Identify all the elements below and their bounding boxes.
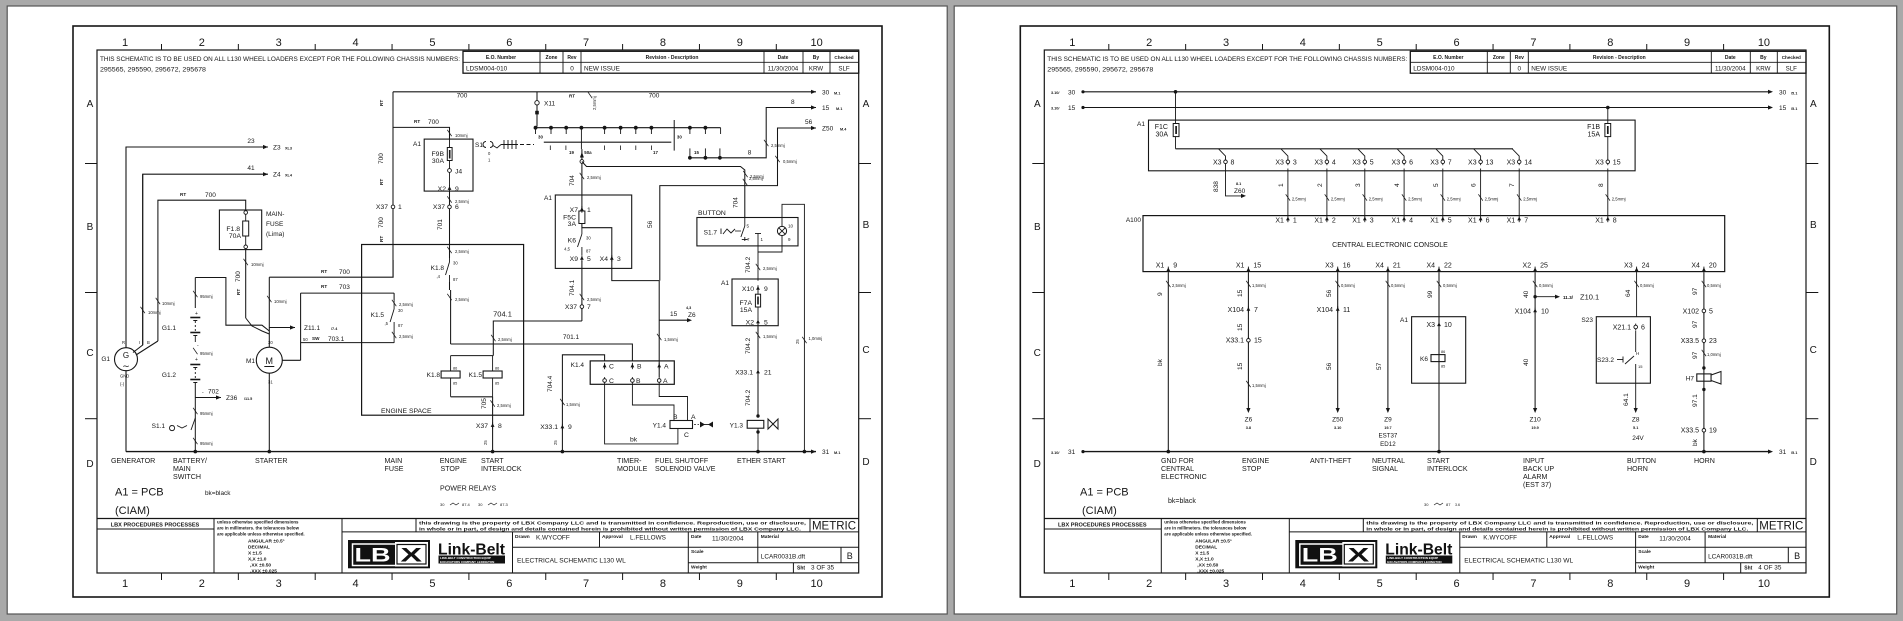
svg-text:C: C bbox=[862, 345, 869, 356]
svg-text:/5.1: /5.1 bbox=[1791, 107, 1797, 111]
svg-text:4: 4 bbox=[1332, 159, 1336, 166]
svg-text:30: 30 bbox=[1779, 89, 1787, 96]
svg-text:6: 6 bbox=[506, 578, 512, 590]
svg-text:B: B bbox=[863, 220, 870, 231]
svg-text:8.1: 8.1 bbox=[1236, 182, 1241, 186]
wire 56 to Z50 bbox=[660, 128, 816, 281]
fuse F9B 30A bbox=[449, 139, 451, 147]
svg-text:6: 6 bbox=[1409, 159, 1413, 166]
svg-text:BUTTON: BUTTON bbox=[698, 210, 726, 217]
wire to button 704 bbox=[582, 162, 745, 218]
svg-text:87.4: 87.4 bbox=[462, 502, 471, 507]
svg-text:J4: J4 bbox=[455, 169, 462, 176]
svg-text:G1: G1 bbox=[101, 356, 110, 363]
wire Z4 tap bbox=[143, 174, 268, 345]
svg-text:11/30/2004: 11/30/2004 bbox=[712, 536, 744, 543]
wire start interlock column bbox=[1438, 273, 1440, 452]
svg-text:70A: 70A bbox=[229, 233, 242, 240]
svg-text:X37: X37 bbox=[565, 304, 577, 311]
svg-text:97: 97 bbox=[1692, 351, 1699, 359]
svg-text:9: 9 bbox=[764, 286, 768, 293]
svg-text:700: 700 bbox=[457, 93, 468, 100]
svg-text:64.1: 64.1 bbox=[1623, 393, 1630, 406]
svg-text:5.1: 5.1 bbox=[1633, 426, 1638, 430]
svg-text:in whole or in part, of design: in whole or in part, of design and detai… bbox=[1366, 526, 1748, 531]
svg-text:15: 15 bbox=[1237, 362, 1244, 370]
svg-text:SWITCH: SWITCH bbox=[173, 473, 201, 481]
svg-text:NEW ISSUE: NEW ISSUE bbox=[1531, 66, 1567, 73]
svg-text:ENGINE SPACE: ENGINE SPACE bbox=[381, 408, 432, 415]
svg-text:16: 16 bbox=[1343, 263, 1351, 270]
svg-text:X33.5: X33.5 bbox=[1681, 338, 1699, 345]
svg-text:/5.1: /5.1 bbox=[1791, 451, 1797, 455]
svg-text:ANGULAR ±0.5°: ANGULAR ±0.5° bbox=[248, 538, 285, 544]
svg-text:5: 5 bbox=[1433, 183, 1440, 187]
connector X104 pin 10 bbox=[1533, 309, 1537, 313]
fuel shutoff valve Y1.4 bbox=[670, 421, 693, 429]
svg-text:,XXX ±0.025: ,XXX ±0.025 bbox=[1197, 568, 1224, 574]
svg-text:30: 30 bbox=[822, 89, 830, 96]
svg-text:704: 704 bbox=[569, 175, 576, 186]
svg-text:2,5mmj: 2,5mmj bbox=[498, 337, 512, 342]
svg-text:F7A: F7A bbox=[740, 300, 753, 307]
svg-text:LBX PROCEDURES PROCESSES: LBX PROCEDURES PROCESSES bbox=[1058, 523, 1147, 529]
svg-text:A: A bbox=[663, 378, 668, 385]
svg-text:Z50: Z50 bbox=[1332, 417, 1344, 424]
svg-text:F1C: F1C bbox=[1155, 124, 1168, 131]
svg-text:A: A bbox=[691, 414, 696, 421]
svg-text:Approval: Approval bbox=[1549, 534, 1570, 540]
svg-text:F1.8: F1.8 bbox=[226, 226, 240, 233]
svg-text:(-): (-) bbox=[120, 382, 125, 387]
relay coil K1.8 bbox=[451, 355, 494, 357]
svg-text:704.1: 704.1 bbox=[493, 310, 512, 319]
svg-text:2,5mmj: 2,5mmj bbox=[1331, 197, 1345, 202]
svg-text:1: 1 bbox=[1069, 37, 1075, 49]
central electronic console box A100 bbox=[1143, 216, 1725, 272]
svg-text:25: 25 bbox=[553, 440, 558, 445]
connector X104 pin 11 bbox=[1336, 307, 1340, 311]
net arrow Z8 24V bbox=[1634, 408, 1638, 413]
svg-text:15: 15 bbox=[1638, 364, 1643, 369]
connector X33.1 pin 9 bbox=[561, 425, 565, 429]
svg-text:S1.7: S1.7 bbox=[704, 230, 718, 237]
svg-text:INTERLOCK: INTERLOCK bbox=[481, 465, 522, 473]
svg-text:X4: X4 bbox=[600, 256, 609, 263]
horn H7 bbox=[1702, 366, 1705, 369]
svg-text:6: 6 bbox=[1486, 217, 1490, 224]
svg-text:ED12: ED12 bbox=[1380, 441, 1396, 448]
svg-text:10mmj: 10mmj bbox=[455, 133, 468, 138]
svg-text:50: 50 bbox=[303, 337, 308, 342]
svg-text:MAIN: MAIN bbox=[385, 457, 403, 465]
grid row ticks left bbox=[85, 163, 97, 165]
ignition switch terminal rail top bbox=[534, 127, 720, 129]
svg-text:30: 30 bbox=[268, 340, 273, 345]
svg-text:(EST 37): (EST 37) bbox=[1523, 481, 1551, 489]
svg-text:7: 7 bbox=[1530, 578, 1536, 590]
svg-text:704.1: 704.1 bbox=[569, 279, 576, 296]
svg-text:13: 13 bbox=[1486, 159, 1494, 166]
connector X37 pin 6 bbox=[448, 205, 452, 209]
net arrow Z11.1 bbox=[269, 327, 295, 329]
svg-text:3.10/: 3.10/ bbox=[1051, 451, 1060, 455]
svg-text:4 OF 35: 4 OF 35 bbox=[1758, 565, 1782, 572]
wire main fuse to starter junction bbox=[245, 249, 247, 318]
svg-text:X3: X3 bbox=[1352, 159, 1361, 166]
svg-text:19.9: 19.9 bbox=[1531, 426, 1538, 430]
svg-text:A1: A1 bbox=[1400, 317, 1408, 324]
svg-text:15: 15 bbox=[1254, 338, 1262, 345]
svg-text:3: 3 bbox=[1370, 217, 1374, 224]
svg-text:25: 25 bbox=[483, 440, 488, 445]
svg-text:87.3: 87.3 bbox=[500, 502, 509, 507]
svg-text:0,5mmj: 0,5mmj bbox=[1391, 283, 1405, 288]
wire 704.2 to X33.1 bbox=[757, 324, 759, 415]
svg-text:XL4: XL4 bbox=[285, 174, 293, 178]
svg-text:+: + bbox=[195, 311, 198, 317]
svg-text:X3: X3 bbox=[1392, 159, 1401, 166]
wire left vertical RT 700 bbox=[392, 127, 394, 277]
wire 8 to net 15 bbox=[690, 108, 816, 158]
svg-text:8: 8 bbox=[660, 37, 666, 49]
svg-text:C: C bbox=[609, 364, 614, 371]
svg-text:700: 700 bbox=[235, 271, 242, 282]
svg-text:56: 56 bbox=[1326, 362, 1333, 370]
svg-text:15: 15 bbox=[670, 311, 678, 318]
svg-text:2,5mmj: 2,5mmj bbox=[1523, 197, 1537, 202]
svg-text:STARTER: STARTER bbox=[255, 457, 287, 465]
svg-text:0: 0 bbox=[570, 66, 574, 73]
svg-text:1,5mmj: 1,5mmj bbox=[763, 334, 777, 339]
wire horn column bbox=[1703, 273, 1705, 452]
wire Z3 tap bbox=[126, 147, 268, 452]
grid row ticks right bbox=[1806, 163, 1818, 165]
svg-text:3.10: 3.10 bbox=[1334, 426, 1341, 430]
wire 704.4 timer feed bbox=[562, 355, 604, 452]
svg-text:6: 6 bbox=[1453, 37, 1459, 49]
svg-text:1,5mmj: 1,5mmj bbox=[664, 337, 678, 342]
engine space box bbox=[362, 245, 524, 416]
net arrow Z9 EST37 bbox=[1386, 408, 1390, 413]
svg-text:10: 10 bbox=[811, 578, 823, 590]
svg-text:M: M bbox=[266, 356, 274, 366]
svg-text:22: 22 bbox=[1444, 263, 1452, 270]
svg-text:METRIC: METRIC bbox=[1759, 521, 1803, 533]
svg-text:are in millimeters. the tolera: are in millimeters. the tolerances below bbox=[217, 525, 300, 530]
svg-text:Z50: Z50 bbox=[822, 126, 834, 133]
svg-text:ENGINE: ENGINE bbox=[1242, 457, 1269, 465]
svg-text:4: 4 bbox=[1394, 183, 1401, 187]
svg-text:Revision - Description: Revision - Description bbox=[646, 55, 699, 61]
svg-text:1: 1 bbox=[1278, 183, 1285, 187]
svg-text:X104: X104 bbox=[1228, 307, 1244, 314]
svg-text:9: 9 bbox=[1157, 292, 1164, 296]
svg-text:ANGULAR ±0.5°: ANGULAR ±0.5° bbox=[1195, 538, 1232, 544]
svg-text:5: 5 bbox=[429, 37, 435, 49]
connector X2 pin 5 bbox=[756, 320, 760, 324]
svg-text:RT: RT bbox=[321, 269, 327, 274]
svg-text:30: 30 bbox=[453, 261, 458, 266]
svg-text:X1: X1 bbox=[1314, 217, 1323, 224]
svg-text:23: 23 bbox=[247, 138, 255, 145]
revision table bbox=[463, 51, 859, 73]
svg-text:X3: X3 bbox=[1595, 159, 1604, 166]
svg-text:BACK UP: BACK UP bbox=[1523, 465, 1554, 473]
svg-text:THIS SCHEMATIC IS TO BE USED O: THIS SCHEMATIC IS TO BE USED ON ALL L130… bbox=[100, 56, 460, 63]
svg-text:A: A bbox=[1034, 99, 1041, 110]
svg-text:Date: Date bbox=[691, 534, 702, 540]
connector X3 pins row bbox=[1224, 160, 1228, 164]
generator G1 bbox=[115, 348, 138, 371]
connector X4 pin 3 bbox=[610, 256, 614, 260]
svg-text:M.1: M.1 bbox=[834, 451, 840, 455]
svg-text:X10: X10 bbox=[742, 286, 754, 293]
svg-text:7: 7 bbox=[583, 578, 589, 590]
svg-text:40: 40 bbox=[1523, 358, 1530, 366]
svg-text:1,5mmj: 1,5mmj bbox=[1252, 383, 1266, 388]
svg-text:KRW: KRW bbox=[809, 66, 823, 73]
svg-text:Drawn: Drawn bbox=[515, 534, 530, 540]
svg-text:31: 31 bbox=[1779, 449, 1787, 456]
svg-text:15: 15 bbox=[694, 150, 699, 155]
svg-text:X37: X37 bbox=[376, 204, 388, 211]
svg-text:704.2: 704.2 bbox=[745, 256, 752, 273]
svg-text:B: B bbox=[1794, 551, 1800, 561]
svg-text:21: 21 bbox=[764, 370, 772, 377]
wire 56 feed into F5C bbox=[582, 224, 659, 281]
svg-text:1: 1 bbox=[1069, 578, 1075, 590]
svg-text:Date: Date bbox=[778, 55, 789, 61]
starter ground wire bbox=[268, 373, 270, 451]
svg-text:30A: 30A bbox=[1156, 132, 1169, 139]
svg-text:5: 5 bbox=[1709, 309, 1713, 316]
svg-text:X3: X3 bbox=[1507, 159, 1516, 166]
svg-text:K6: K6 bbox=[568, 238, 577, 245]
wire input backup alarm column bbox=[1534, 273, 1536, 408]
svg-text:7: 7 bbox=[1448, 159, 1452, 166]
svg-text:G1.1: G1.1 bbox=[162, 325, 176, 332]
svg-text:GND: GND bbox=[120, 374, 129, 379]
svg-text:30: 30 bbox=[677, 135, 682, 140]
svg-text:bk: bk bbox=[630, 437, 638, 444]
wire 64.1 to Z8 bbox=[1635, 383, 1637, 408]
svg-text:Z6: Z6 bbox=[1245, 417, 1253, 424]
svg-text:10mmj: 10mmj bbox=[251, 262, 264, 267]
svg-text:X1: X1 bbox=[1392, 217, 1401, 224]
svg-text:3.10/: 3.10/ bbox=[1051, 107, 1060, 111]
svg-text:95mmj: 95mmj bbox=[200, 351, 213, 356]
svg-text:Y1.3: Y1.3 bbox=[730, 423, 744, 430]
button lamp bbox=[777, 226, 786, 235]
svg-text:X9: X9 bbox=[570, 256, 579, 263]
svg-text:86: 86 bbox=[453, 367, 457, 371]
svg-text:RT: RT bbox=[379, 236, 384, 242]
fuse F7A 15A bbox=[757, 291, 759, 294]
svg-text:SIGNAL: SIGNAL bbox=[1372, 465, 1398, 473]
svg-text:A: A bbox=[863, 99, 870, 110]
svg-text:X,X ±1.0: X,X ±1.0 bbox=[248, 556, 267, 562]
fuse F5C 3A bbox=[579, 211, 585, 224]
wire 704.1 to X37 pin 7 bbox=[581, 261, 583, 321]
svg-text:G1.2: G1.2 bbox=[162, 372, 176, 379]
svg-text:64: 64 bbox=[1625, 289, 1632, 297]
drawing outer border frame bbox=[1020, 26, 1829, 597]
svg-text:Revision - Description: Revision - Description bbox=[1593, 55, 1646, 61]
svg-text:(Lima): (Lima) bbox=[266, 231, 284, 238]
svg-text:D: D bbox=[1810, 457, 1817, 468]
svg-text:19: 19 bbox=[1709, 428, 1717, 435]
svg-text:X: X bbox=[401, 546, 423, 567]
svg-text:3: 3 bbox=[617, 256, 621, 263]
svg-text:S1: S1 bbox=[475, 142, 483, 149]
svg-text:∼: ∼ bbox=[122, 361, 130, 371]
connector X37 pin 7 bbox=[580, 305, 584, 309]
svg-text:X3: X3 bbox=[1275, 159, 1284, 166]
svg-text:57: 57 bbox=[1376, 362, 1383, 370]
terminal tick 30 bbox=[673, 120, 675, 151]
svg-text:B: B bbox=[1034, 222, 1041, 233]
svg-text:85: 85 bbox=[453, 382, 457, 386]
svg-text:19: 19 bbox=[569, 150, 574, 155]
svg-text:LDSM004-010: LDSM004-010 bbox=[466, 66, 508, 73]
svg-text:this drawing is the property o: this drawing is the property of LBX Comp… bbox=[419, 521, 806, 526]
svg-text:6: 6 bbox=[455, 204, 459, 211]
svg-text:K1.8: K1.8 bbox=[431, 265, 445, 272]
svg-text:ELECTRICAL SCHEMATIC L130 WL: ELECTRICAL SCHEMATIC L130 WL bbox=[517, 558, 626, 565]
svg-text:A: A bbox=[1810, 99, 1817, 110]
drawing inner border frame bbox=[1044, 50, 1806, 573]
svg-text:2,5mmj: 2,5mmj bbox=[1485, 197, 1499, 202]
svg-text:A: A bbox=[87, 99, 94, 110]
svg-text:Date: Date bbox=[1725, 55, 1736, 61]
svg-text:56: 56 bbox=[1326, 289, 1333, 297]
svg-text:X2: X2 bbox=[438, 186, 447, 193]
svg-text:2,5mmj: 2,5mmj bbox=[399, 302, 413, 307]
svg-text:2: 2 bbox=[1317, 183, 1324, 187]
svg-text:K1.8: K1.8 bbox=[427, 372, 441, 379]
svg-text:9: 9 bbox=[455, 186, 459, 193]
svg-text:X1: X1 bbox=[1275, 217, 1284, 224]
svg-text:4: 4 bbox=[1300, 578, 1306, 590]
svg-text:B: B bbox=[147, 340, 150, 345]
svg-text:X2: X2 bbox=[746, 320, 755, 327]
svg-text:START: START bbox=[481, 457, 504, 465]
svg-text:31: 31 bbox=[822, 449, 830, 456]
svg-text:MAIN-: MAIN- bbox=[266, 211, 284, 218]
connector X3 pin 10 bbox=[1437, 322, 1441, 326]
svg-text:ETHER START: ETHER START bbox=[737, 457, 786, 465]
page 2 sheet background bbox=[954, 6, 1896, 614]
svg-text:R: R bbox=[122, 340, 125, 345]
svg-text:15: 15 bbox=[1068, 105, 1076, 112]
ground bus 31 bbox=[126, 451, 816, 453]
svg-text:10mmj: 10mmj bbox=[274, 299, 287, 304]
svg-text:X: X bbox=[1348, 546, 1370, 567]
svg-text:5: 5 bbox=[1377, 37, 1383, 49]
connector X33.5 pin 23 bbox=[1702, 339, 1706, 343]
svg-text:,XXX ±0.025: ,XXX ±0.025 bbox=[250, 568, 277, 574]
svg-text:(CIAM): (CIAM) bbox=[1082, 505, 1117, 517]
wires X3 row to X1 row bbox=[1287, 169, 1289, 216]
svg-text:(CIAM): (CIAM) bbox=[115, 505, 150, 517]
grid row ticks left bbox=[1032, 163, 1044, 165]
svg-text:A1 = PCB: A1 = PCB bbox=[1080, 487, 1129, 499]
svg-text:X104: X104 bbox=[1317, 307, 1333, 314]
svg-text:7: 7 bbox=[1254, 307, 1258, 314]
connector X104 pin 7 bbox=[1247, 307, 1251, 311]
svg-text:E.O. Number: E.O. Number bbox=[486, 55, 516, 61]
svg-text:GENERATOR: GENERATOR bbox=[111, 457, 155, 465]
drawing inner border frame bbox=[97, 50, 859, 573]
svg-text:H7: H7 bbox=[1686, 376, 1695, 383]
svg-text:INPUT: INPUT bbox=[1523, 457, 1545, 465]
svg-text:19.7: 19.7 bbox=[1384, 426, 1391, 430]
svg-text:Zone: Zone bbox=[1493, 55, 1505, 61]
svg-text:9: 9 bbox=[568, 424, 572, 431]
svg-text:A1: A1 bbox=[544, 195, 552, 202]
svg-text:3: 3 bbox=[1355, 183, 1362, 187]
svg-text:D: D bbox=[862, 457, 869, 468]
svg-text:M.1: M.1 bbox=[834, 91, 840, 95]
svg-text:2,5mmj: 2,5mmj bbox=[587, 175, 601, 180]
svg-text:10: 10 bbox=[788, 224, 794, 229]
svg-text:X1: X1 bbox=[1352, 217, 1361, 224]
svg-text:2,5mmj: 2,5mmj bbox=[750, 174, 764, 179]
connector X10 pin 9 bbox=[756, 286, 760, 290]
svg-text:X1: X1 bbox=[1236, 263, 1245, 270]
svg-text:LBX PROCEDURES PROCESSES: LBX PROCEDURES PROCESSES bbox=[111, 523, 200, 529]
svg-text:X37: X37 bbox=[433, 204, 445, 211]
svg-text:2,5mmj: 2,5mmj bbox=[455, 249, 469, 254]
svg-text:X33.1: X33.1 bbox=[1226, 338, 1244, 345]
rail drops to X3 pins bbox=[1219, 149, 1226, 159]
svg-text:L.FELLOWS: L.FELLOWS bbox=[1577, 535, 1613, 542]
relay coil K6 p2 bbox=[1431, 355, 1445, 362]
svg-text:METRIC: METRIC bbox=[812, 521, 856, 533]
svg-text:95mmj: 95mmj bbox=[200, 294, 213, 299]
wire bk ground of Y1.4 bbox=[605, 384, 678, 444]
svg-text:2: 2 bbox=[199, 37, 205, 49]
grid column ticks bottom bbox=[1108, 573, 1110, 580]
svg-text:M.4: M.4 bbox=[840, 128, 847, 132]
svg-text:7: 7 bbox=[1509, 183, 1516, 187]
svg-text:3A: 3A bbox=[568, 221, 577, 228]
svg-text:2,5mmj: 2,5mmj bbox=[592, 96, 597, 110]
svg-text:2: 2 bbox=[1332, 217, 1336, 224]
svg-text:X ±1.5: X ±1.5 bbox=[1195, 550, 1209, 556]
svg-text:3: 3 bbox=[276, 37, 282, 49]
svg-text:24V: 24V bbox=[1632, 435, 1644, 442]
svg-text:9: 9 bbox=[737, 578, 743, 590]
svg-text:30: 30 bbox=[1068, 89, 1076, 96]
battery G1.1 G1.2 string bbox=[194, 278, 196, 309]
net arrow Z10.1 bbox=[1533, 295, 1536, 298]
svg-text:1,0mmj: 1,0mmj bbox=[809, 336, 823, 341]
svg-text:3 OF 35: 3 OF 35 bbox=[811, 565, 835, 572]
svg-text:5: 5 bbox=[1370, 159, 1374, 166]
svg-text:5: 5 bbox=[1377, 578, 1383, 590]
svg-text:2,5mmj: 2,5mmj bbox=[455, 297, 469, 302]
svg-text:1: 1 bbox=[122, 37, 128, 49]
svg-text:are applicable unless otherwis: are applicable unless otherwise specifie… bbox=[1164, 531, 1252, 536]
svg-text:2: 2 bbox=[1146, 578, 1152, 590]
svg-text:14: 14 bbox=[1524, 159, 1532, 166]
svg-text:Z10.1: Z10.1 bbox=[1580, 293, 1599, 302]
svg-text:X4: X4 bbox=[1375, 263, 1384, 270]
wire 704.2 button to fuse bbox=[757, 252, 759, 281]
svg-text:E.O. Number: E.O. Number bbox=[1433, 55, 1463, 61]
